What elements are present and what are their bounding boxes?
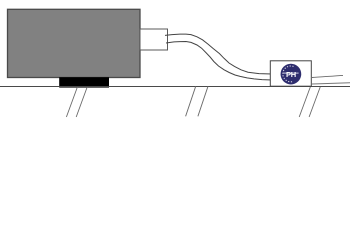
hatch group 1	[66, 87, 77, 117]
hatch group 3	[299, 87, 310, 117]
sensor box	[270, 61, 311, 86]
connector	[140, 29, 168, 50]
cable lower	[166, 42, 272, 81]
logo arc text	[283, 66, 294, 82]
logo crossbar	[283, 73, 299, 74]
black foot	[59, 77, 109, 87]
cable upper	[165, 34, 272, 74]
gray device body	[8, 9, 141, 77]
cable right lower	[312, 83, 350, 84]
ground line	[0, 86, 350, 88]
hatch group 2	[186, 86, 196, 116]
logo disc	[281, 64, 302, 85]
svg-text:PH: PH	[286, 70, 296, 79]
cable right upper	[312, 75, 343, 77]
